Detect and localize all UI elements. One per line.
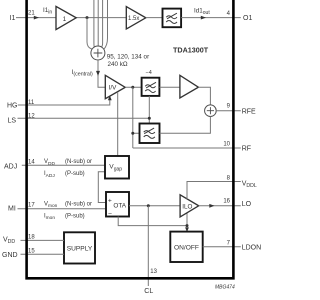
wire gain-select line 3 <box>102 0 103 47</box>
svg-text:MBG474: MBG474 <box>215 284 235 290</box>
pin label VDD <box>3 236 15 245</box>
wire CL down to pin 13 <box>147 206 149 286</box>
svg-text:TDA1300T: TDA1300T <box>173 45 209 54</box>
wire OTA bottom to ON/OFF <box>118 211 187 231</box>
wire A1 output to A2 <box>76 17 126 19</box>
pin label MI <box>8 206 16 213</box>
wire ILO output to pin 16 LO <box>199 204 241 208</box>
pin 18 number <box>28 234 35 240</box>
svg-text:(P-sub): (P-sub) <box>65 213 85 219</box>
amplifier A1 gain 1 <box>56 6 76 29</box>
svg-text:18: 18 <box>28 234 35 240</box>
pin 4 number <box>227 11 231 17</box>
svg-text:I1: I1 <box>10 15 16 22</box>
pin 15 number <box>28 248 35 254</box>
amplifier A2 gain 1.5x <box>126 7 146 29</box>
label Imon P-sub <box>44 213 85 221</box>
svg-text:RF: RF <box>242 146 251 153</box>
op-amp OTA <box>106 192 129 217</box>
wire gain-select line 2 <box>97 0 99 46</box>
svg-text:LS: LS <box>8 117 17 124</box>
pin 21 number <box>28 11 35 17</box>
wire gain-select line 1 <box>93 0 95 47</box>
label VDD N-sub or <box>44 159 92 167</box>
svg-text:11: 11 <box>28 100 35 106</box>
arrowhead into ON/OFF <box>185 227 189 232</box>
wire VDDL pin 8 to ILO top <box>187 182 241 200</box>
block SUPPLY <box>64 232 95 263</box>
wire ADJ to Vgap <box>22 164 105 166</box>
op-amp U2 I/V converter <box>105 75 125 98</box>
svg-text:ON/OFF: ON/OFF <box>174 244 199 251</box>
pin 17 number <box>28 203 35 209</box>
pin 12 number <box>28 114 35 120</box>
wire F3 output up into S2 bottom <box>160 117 211 134</box>
pin label LO <box>242 201 252 208</box>
pin 11 number <box>28 100 35 106</box>
svg-text:1: 1 <box>63 16 67 23</box>
pin label VDDL <box>242 180 257 189</box>
svg-text:15: 15 <box>28 248 35 254</box>
wire F2 to A3 <box>159 86 180 88</box>
wire A3 to summing node S2 <box>198 87 210 105</box>
svg-text:+: + <box>108 197 112 204</box>
svg-text:(P-sub): (P-sub) <box>65 171 85 177</box>
pin 8 number <box>227 175 231 181</box>
filter F1 <box>163 9 182 28</box>
wire OTA output to ILO <box>129 205 180 207</box>
node junction LS to inter-filter line <box>148 117 151 120</box>
wire F1 to pin 4 with Id1out label <box>181 8 241 20</box>
value label 95 120 134 or 240 kOhm <box>107 53 149 68</box>
node junction at A1 output <box>86 16 89 19</box>
svg-text:ADJ: ADJ <box>4 163 17 170</box>
svg-text:16: 16 <box>223 198 230 204</box>
pin 10 number <box>223 142 230 148</box>
wire VDD pin 18 to SUPPLY <box>21 239 65 241</box>
svg-text:95, 120, 134 or: 95, 120, 134 or <box>107 53 149 60</box>
wire S2 to pin 9 RFE <box>216 110 241 112</box>
label Vmon N-sub or <box>44 202 92 210</box>
pin label GND <box>2 252 18 259</box>
label IADJ P-sub <box>44 171 85 179</box>
svg-text:240 kΩ: 240 kΩ <box>108 61 128 68</box>
summing node S1 <box>91 46 105 60</box>
svg-text:(N-sub) or: (N-sub) or <box>65 202 92 208</box>
svg-text:−: − <box>108 210 112 217</box>
svg-text:RFE: RFE <box>242 108 256 115</box>
wire MI to OTA minus input <box>18 208 107 210</box>
svg-text:OTA: OTA <box>113 203 126 210</box>
wire ADJ branch down to OTA plus input <box>98 172 106 203</box>
svg-text:LDON: LDON <box>242 245 261 252</box>
svg-text:LO: LO <box>242 201 252 208</box>
wire I/V output to F2 <box>125 86 141 88</box>
svg-text:CL: CL <box>144 288 153 295</box>
svg-text:17: 17 <box>28 203 35 209</box>
wire vertical from I/V bottom to Vgap top <box>117 92 119 156</box>
svg-text:1.5x: 1.5x <box>128 16 139 22</box>
svg-text:SUPPLY: SUPPLY <box>67 246 93 253</box>
pin label I1 <box>10 15 16 22</box>
node junction on ON/OFF feed <box>186 224 189 227</box>
pin 7 number <box>227 241 231 247</box>
wire gain-select line 4 <box>104 0 108 49</box>
pin 9 number <box>227 103 231 109</box>
figure code MBG474 <box>215 284 235 290</box>
svg-text:O1: O1 <box>243 15 252 22</box>
node junction at F3 input <box>131 132 134 135</box>
pin label RFE <box>242 108 256 115</box>
arrowhead I1 input <box>34 16 39 20</box>
svg-text:ILO: ILO <box>182 204 192 211</box>
pin label ADJ <box>4 163 17 170</box>
wire LS control <box>18 117 150 119</box>
buffer ILO <box>180 195 199 217</box>
pin 14 number <box>28 160 35 166</box>
chip boundary <box>27 0 234 278</box>
pin label HG <box>7 103 18 110</box>
wire I central from S1 to IV converter <box>96 60 105 87</box>
svg-text:I/V: I/V <box>109 85 117 92</box>
pin label RF <box>242 146 251 153</box>
wire branch from A1 output node to summing circle S1 <box>87 18 92 49</box>
svg-text:HG: HG <box>7 103 18 110</box>
wire I1 input <box>16 17 56 19</box>
pin 16 number <box>223 198 230 204</box>
wire A2 to F1 <box>146 17 163 19</box>
chip name TDA1300T <box>173 45 209 54</box>
svg-text:21: 21 <box>28 11 35 17</box>
node junction CL on OTA output <box>147 204 150 207</box>
pin label CL <box>144 288 153 295</box>
svg-text:GND: GND <box>2 252 18 259</box>
filter F3 <box>140 124 160 144</box>
label I central <box>72 69 93 78</box>
svg-text:14: 14 <box>28 160 35 166</box>
filter F2 gain -4 <box>142 70 160 96</box>
pin label LDON <box>242 245 261 252</box>
svg-text:12: 12 <box>28 114 35 120</box>
wire ON/OFF to pin 7 LDON <box>203 246 241 248</box>
bandgap reference Vgap <box>105 156 129 179</box>
pin label LS <box>8 117 17 124</box>
svg-text:MI: MI <box>8 206 16 213</box>
wire vertical F2 bottom to F3 top <box>148 96 150 124</box>
summing node S2 <box>205 105 217 117</box>
label I1in <box>43 7 52 16</box>
node junction at I/V output <box>131 86 134 89</box>
svg-text:−4: −4 <box>146 70 152 76</box>
amplifier A3 <box>180 75 199 98</box>
svg-text:(N-sub) or: (N-sub) or <box>65 159 92 165</box>
wire vertical I/V output down to F3 input and RF <box>133 87 140 148</box>
block ON/OFF <box>170 232 202 262</box>
svg-text:10: 10 <box>223 142 230 148</box>
wire HG control into I/V <box>18 95 112 105</box>
svg-text:13: 13 <box>150 269 157 275</box>
wire GND pin 15 to SUPPLY <box>21 253 65 255</box>
pin 13 number <box>150 269 157 275</box>
pin label O1 <box>243 15 252 22</box>
wire RF to pin 10 <box>133 147 241 149</box>
